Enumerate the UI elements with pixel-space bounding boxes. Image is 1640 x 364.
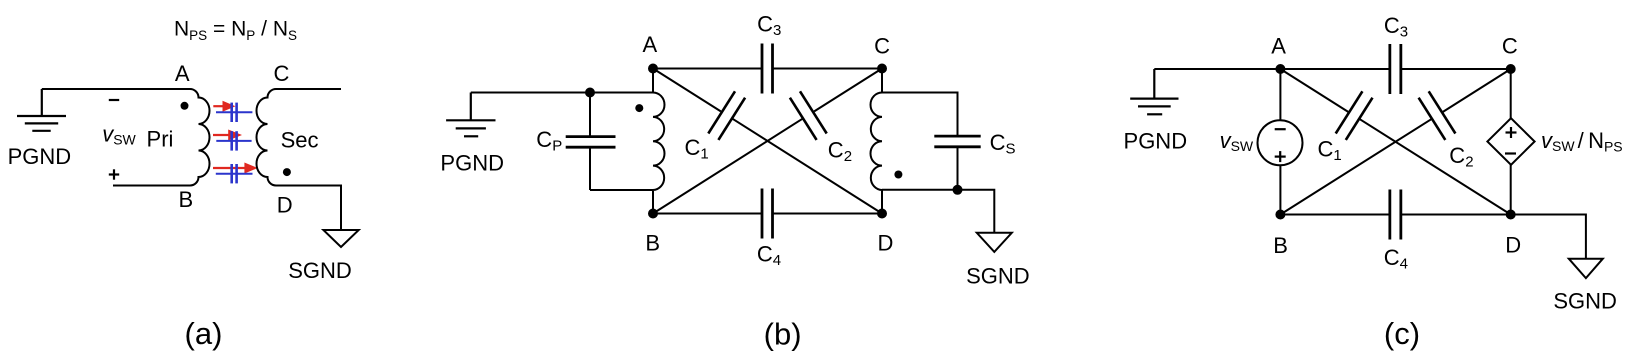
wire B to C4 to D (b): [653, 213, 882, 215]
inductor primary winding (a): [190, 89, 210, 186]
svg-text:Pri: Pri: [147, 126, 174, 151]
wire bottom-left (a): [113, 185, 190, 187]
label C4 (c): [1384, 245, 1408, 273]
capacitor CS branch wires (b): [882, 93, 994, 233]
svg-text:(c): (c): [1384, 316, 1420, 351]
capacitor C1 plates (c): [1336, 91, 1373, 140]
svg-text:A: A: [642, 32, 657, 57]
capacitor C3 (c): [1390, 44, 1401, 94]
ground SGND triangle (c): [1569, 259, 1603, 278]
svg-text:C2: C2: [1449, 143, 1473, 171]
svg-text:Sec: Sec: [281, 128, 319, 153]
inductor secondary winding (a): [257, 89, 277, 186]
label formula NPS = NP / NS: [174, 18, 297, 44]
svg-text:PGND: PGND: [8, 144, 72, 169]
capacitor C4 (c): [1390, 190, 1401, 240]
label minus (a): [109, 99, 119, 101]
diagonal wire A to D with C1 (b): [653, 69, 882, 214]
svg-text:vSW: vSW: [102, 122, 136, 148]
diagonal wire C to B with C2 (b): [653, 69, 882, 214]
wire A to C3 to C (b): [653, 68, 882, 70]
svg-text:PGND: PGND: [440, 151, 504, 176]
svg-text:A: A: [175, 61, 190, 86]
svg-text:B: B: [178, 187, 193, 212]
svg-text:NPS = NP / NS: NPS = NP / NS: [174, 18, 297, 44]
ground PGND (a): [17, 89, 66, 131]
minus sign in diamond (c): [1505, 152, 1516, 154]
diagonal wire A to D with C1 (c): [1280, 69, 1510, 215]
dependent source diamond (c): [1510, 69, 1512, 215]
capacitor CP (b): [590, 93, 653, 191]
red current arrow 2 (a): [213, 130, 242, 141]
inductor secondary winding (b): [871, 69, 883, 214]
node A (b): [648, 64, 658, 74]
wire top-left (a): [42, 88, 190, 90]
ground PGND (b): [446, 93, 495, 137]
node D (b): [877, 209, 887, 219]
label C1 (c): [1318, 137, 1342, 165]
plus sign in diamond (c): [1506, 127, 1517, 138]
wire B to C4 to D (c): [1280, 214, 1510, 216]
svg-text:C: C: [874, 34, 890, 59]
svg-text:C: C: [1502, 34, 1518, 59]
phase dot primary (b): [635, 104, 643, 112]
svg-text:C3: C3: [757, 12, 781, 40]
svg-text:C1: C1: [685, 135, 709, 163]
junction dot CP tap (b): [585, 88, 595, 98]
wire top-right (a): [276, 88, 341, 90]
label vSW (a): [102, 122, 136, 148]
node B (c): [1275, 210, 1285, 220]
diagonal wire C to B with C2 (c): [1280, 69, 1510, 215]
wire A to C3 to C (c): [1280, 68, 1510, 70]
ground SGND triangle (a): [323, 230, 358, 247]
phase dot primary (a): [181, 102, 189, 110]
label C4 (b): [757, 242, 781, 270]
svg-text:(a): (a): [185, 316, 223, 351]
svg-text:vSW: vSW: [1220, 128, 1254, 154]
ground SGND triangle (b): [977, 233, 1012, 252]
svg-text:D: D: [1505, 233, 1521, 258]
label C1 (b): [685, 135, 709, 163]
svg-text:SGND: SGND: [288, 258, 352, 283]
svg-text:CP: CP: [536, 127, 562, 155]
phase dot secondary (b): [894, 171, 902, 179]
node A (c): [1275, 64, 1285, 74]
node B (b): [648, 209, 658, 219]
svg-text:C1: C1: [1318, 137, 1342, 165]
capacitor CS plates (b): [934, 136, 980, 147]
label CP (b): [536, 127, 562, 155]
svg-text:SGND: SGND: [966, 264, 1030, 289]
svg-text:CS: CS: [990, 130, 1016, 158]
minus sign in circle (c): [1275, 128, 1286, 130]
voltage source vSW circle (c): [1279, 69, 1281, 215]
svg-text:B: B: [1273, 233, 1288, 258]
label C3 (c): [1384, 13, 1408, 41]
interwinding capacitance group 3: blue lead (a): [216, 164, 253, 183]
node D (c): [1506, 210, 1516, 220]
svg-text:C4: C4: [1384, 245, 1408, 273]
wire bottom-right to SGND (a): [276, 186, 341, 231]
svg-text:C4: C4: [757, 242, 781, 270]
label C2 (c): [1449, 143, 1473, 171]
plus sign in circle (c): [1275, 151, 1286, 162]
inductor primary winding (b): [653, 69, 665, 214]
node C (c): [1506, 64, 1516, 74]
svg-text:SGND: SGND: [1553, 289, 1617, 314]
junction dot SGND tap (b): [953, 185, 963, 195]
capacitor C2 plates (c): [1419, 91, 1456, 140]
svg-text:PGND: PGND: [1124, 129, 1188, 154]
svg-text:D: D: [878, 231, 894, 256]
capacitor C3 (b): [762, 44, 773, 94]
svg-text:(b): (b): [764, 317, 802, 352]
label C2 (b): [828, 138, 852, 166]
label vSW (c): [1220, 128, 1254, 154]
capacitor C2 plates (b): [790, 91, 827, 140]
wire PGND to winding (b): [471, 92, 653, 94]
wire PGND to node A (c): [1154, 68, 1280, 70]
label CS (b): [990, 130, 1016, 158]
red current arrow 3 (a): [213, 163, 258, 174]
label vSW / NPS (c): [1541, 128, 1623, 155]
label C3 (b): [757, 12, 781, 40]
svg-text:D: D: [277, 193, 293, 218]
wire D to SGND (c): [1511, 215, 1586, 259]
interwinding capacitance group 2: blue lead (a): [216, 131, 251, 150]
node C (b): [877, 64, 887, 74]
label plus (a): [109, 169, 119, 179]
svg-text:A: A: [1271, 34, 1286, 59]
capacitor C4 (b): [762, 189, 773, 239]
svg-text:C: C: [273, 61, 289, 86]
ground PGND (c): [1130, 69, 1178, 114]
capacitor C1 plates (b): [708, 91, 745, 140]
interwinding capacitance group 1: blue lead (a): [216, 103, 252, 122]
svg-text:C2: C2: [828, 138, 852, 166]
red current arrow 1 (a): [213, 101, 235, 112]
phase dot secondary (a): [283, 168, 291, 176]
svg-text:vSW/ NPS: vSW/ NPS: [1541, 128, 1623, 155]
svg-text:B: B: [645, 231, 660, 256]
svg-text:C3: C3: [1384, 13, 1408, 41]
